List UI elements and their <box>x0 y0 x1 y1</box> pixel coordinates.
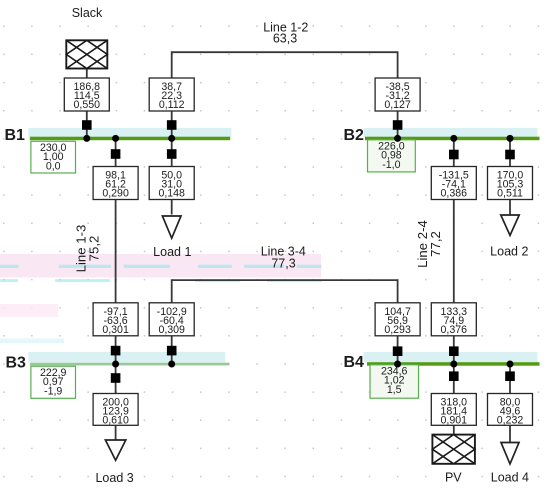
breaker: Line 3-4 at bus B3 <box>167 346 177 356</box>
svg-text:Load 1: Load 1 <box>153 245 191 259</box>
svg-text:0,309: 0,309 <box>158 324 185 336</box>
line label Line 2-4 / 77,2 (rotated) <box>415 220 443 268</box>
result box Line 2-4 at B4: 133,3 / 74,9 / 0,376 <box>431 303 476 336</box>
svg-text:-1,0: -1,0 <box>382 159 400 171</box>
result box Line 3-4 at B4: 104,7 / 56,9 / 0,293 <box>375 303 420 336</box>
wire: generator Slack to bus B1 <box>86 69 88 139</box>
wire: bus B1 to Load 1 <box>171 138 173 214</box>
junction node: Line 1-2 / Load 1 on bus B1 <box>168 135 175 142</box>
junction node: Line 2-4 / PV on bus B4 <box>450 361 457 368</box>
svg-text:B2: B2 <box>344 127 365 144</box>
bus B3 busbar <box>30 363 230 366</box>
junction node: Line 1-2 on bus B2 <box>394 135 401 142</box>
result box Line 3-4 at B3: -102,9 / -60,4 / 0,309 <box>149 303 194 336</box>
bus B2 voltage box: 226,0 kV / 0,98 pu / -1,0 deg <box>368 140 416 172</box>
svg-text:0,376: 0,376 <box>441 324 468 336</box>
svg-text:0,112: 0,112 <box>159 99 185 111</box>
result box Line 1-2 at B2: -38,5 / -31,2 / 0,127 <box>375 78 420 111</box>
svg-text:0,610: 0,610 <box>102 415 129 427</box>
svg-text:0,127: 0,127 <box>384 99 411 111</box>
breaker: Line 1-2 at bus B1 <box>167 120 177 130</box>
svg-text:0,511: 0,511 <box>497 188 523 200</box>
svg-text:0,148: 0,148 <box>158 188 185 200</box>
svg-text:0,293: 0,293 <box>384 324 411 336</box>
load L1 arrow symbol (Load 1) <box>162 216 181 238</box>
wire: Line 2-4 (bus B2 to bus B4) <box>453 138 455 364</box>
result box Load 4: 80,0 / 49,6 / 0,232 <box>488 394 533 427</box>
bus B2 highlight band <box>364 128 538 137</box>
svg-text:75,2: 75,2 <box>87 236 102 262</box>
wire: bus B2 to Load 2 <box>509 138 511 215</box>
wire: Line 1-3 (bus B1 to bus B3) <box>115 138 117 364</box>
load L4 arrow symbol (Load 4) <box>501 443 519 464</box>
bus B3 highlight band <box>28 352 225 362</box>
breaker: Load 1 feeder at bus B1 <box>167 149 177 159</box>
wire: bus B3 to Load 3 <box>115 364 117 440</box>
line label Line 1-3 / 75,2 (rotated) <box>74 225 102 273</box>
result box Load 3: 200,0 / 123,9 / 0,610 <box>93 394 138 427</box>
bus B4 voltage box: 234,6 kV / 1,02 pu / 1,5 deg <box>370 365 419 398</box>
junction node: Line 1-3 on bus B1 <box>112 135 119 142</box>
svg-text:63,3: 63,3 <box>273 32 297 46</box>
result box Line 1-3 at B3: -97,1 / -63,6 / 0,301 <box>93 303 138 336</box>
breaker: Line 2-4 at bus B2 <box>449 150 459 160</box>
breaker: Line 2-4 at bus B4 <box>449 346 459 356</box>
svg-text:Load 2: Load 2 <box>490 244 528 258</box>
svg-text:0,301: 0,301 <box>102 324 129 336</box>
junction node: Load 4 on bus B4 <box>507 361 514 368</box>
bus B2 busbar <box>365 137 540 141</box>
svg-text:0,386: 0,386 <box>441 188 468 200</box>
svg-text:0,550: 0,550 <box>74 99 101 111</box>
bus B4 busbar <box>367 362 540 366</box>
svg-text:0,232: 0,232 <box>497 415 524 427</box>
junction node: Line 2-4 on bus B2 <box>450 135 457 142</box>
load L2 arrow symbol (Load 2) <box>501 215 519 235</box>
svg-text:0,0: 0,0 <box>46 161 61 173</box>
result box Slack injection: P=186,8 Q=114,5 I=0,550 <box>64 78 109 111</box>
load L3 arrow symbol (Load 3) <box>105 440 125 460</box>
breaker: Slack feeder at bus B1 <box>82 120 92 130</box>
result box Line 2-4 at B2: -131,5 / -74,1 / 0,386 <box>431 167 476 200</box>
breaker: Line 1-3 at bus B3 <box>111 346 121 356</box>
breaker: Load 2 feeder at bus B2 <box>505 150 515 160</box>
svg-text:77,3: 77,3 <box>271 257 295 271</box>
junction node: Slack on bus B1 <box>83 135 90 142</box>
svg-text:77,2: 77,2 <box>428 231 443 257</box>
wire: bus B4 to generator PV <box>453 364 455 435</box>
svg-text:PV: PV <box>445 471 462 485</box>
wire: Line 3-4 (bus B3 to bus B4) <box>172 280 398 364</box>
breaker: Load 3 feeder at bus B3 <box>111 373 121 383</box>
bus B1 highlight band <box>28 128 231 137</box>
breaker: Line 1-3 at bus B1 <box>111 149 121 159</box>
result box Load 1: 50,0 / 31,0 / 0,148 <box>149 167 194 200</box>
breaker: PV feeder at bus B4 <box>449 371 459 381</box>
bus B1 (230,0 kV busbar) <box>30 137 230 141</box>
generator G2 "PV" (static generator symbol) <box>432 435 475 464</box>
svg-text:B1: B1 <box>5 127 26 144</box>
result box Load 2: 170,0 / 105,3 / 0,511 <box>488 167 533 200</box>
bus B4 highlight band <box>364 352 538 362</box>
wire: bus B4 to Load 4 <box>509 364 511 443</box>
svg-text:Load 3: Load 3 <box>95 471 133 485</box>
result box Line 1-3 at B1: 98,1 / 61,2 / 0,290 <box>93 167 138 200</box>
result box Line 1-2 at B1: 38,7 / 22,3 / 0,112 <box>149 78 194 111</box>
wire: Line 1-2 (bus B1 to bus B2) <box>172 52 398 138</box>
svg-text:-1,9: -1,9 <box>44 385 62 397</box>
breaker: Load 4 feeder at bus B4 <box>505 371 515 381</box>
svg-text:B3: B3 <box>6 354 27 371</box>
breaker: Line 1-2 at bus B2 <box>393 120 403 130</box>
bus B3 voltage box: 222,9 kV / 0,97 pu / -1,9 deg <box>31 366 76 398</box>
svg-text:0,290: 0,290 <box>102 188 129 200</box>
junction node: Line 3-4 on bus B3 <box>168 361 175 368</box>
result box PV injection: 318,0 / 181,4 / 0,901 <box>431 394 476 427</box>
svg-text:0,901: 0,901 <box>441 415 468 427</box>
junction node: Load 2 on bus B2 <box>507 135 514 142</box>
junction node: Line 1-3 / Load 3 on bus B3 <box>112 361 119 368</box>
bus B1 voltage box: 230,0 kV / 1,00 pu / 0,0 deg <box>31 141 76 173</box>
svg-text:Load 4: Load 4 <box>491 471 529 485</box>
svg-text:Slack: Slack <box>72 6 103 20</box>
svg-text:B4: B4 <box>344 354 365 371</box>
breaker: Line 3-4 at bus B4 <box>393 346 403 356</box>
svg-text:1,5: 1,5 <box>387 384 402 396</box>
junction node: Line 3-4 on bus B4 <box>394 361 401 368</box>
generator G1 "Slack" (external grid symbol) <box>66 40 107 68</box>
